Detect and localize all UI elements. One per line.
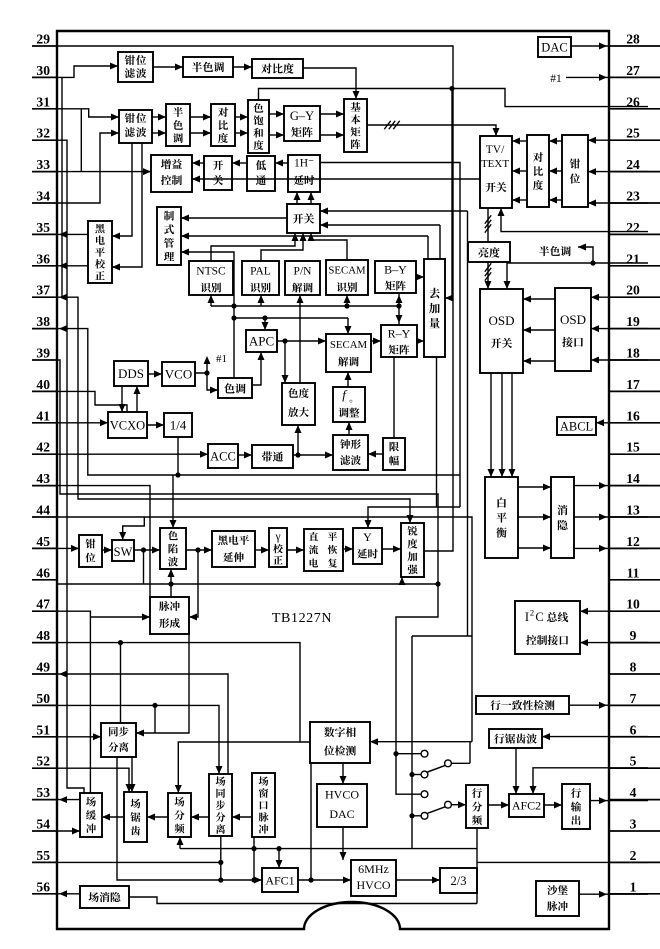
block digital phase detect (数字相位检测) [310,722,370,763]
pin 27 [609,63,660,78]
wire clamp-filter2 to black-level-corr in1 [112,143,132,240]
wire field-sync-sep bottom riser [220,836,222,880]
block field sync separation (场同步分离) [209,774,232,836]
block white balance (白平衡) [485,477,518,558]
svg-text:52: 52 [36,754,50,769]
block gamma correction (γ校正) [269,528,287,567]
wire field-sync-sep to field-divider [191,814,209,821]
switch S2 blade [428,807,446,814]
wire SECAM-detect top to switch2 bottom [308,233,348,260]
block I2C bus control interface [515,601,580,654]
pin 52 [32,754,57,769]
wire pin29 to long vertical [57,46,453,125]
svg-text:11: 11 [627,565,640,580]
svg-text:AFC1: AFC1 [265,874,294,888]
pin 24 [609,157,660,172]
wire 1/4 bottom riser [177,437,179,475]
svg-text:3: 3 [630,817,637,832]
switch S1 blade [428,765,446,772]
block limiter (限幅) [383,438,405,470]
pin 53 [32,785,57,800]
pin 55 [32,848,57,863]
wire pin34 to clamp-filter2 input2 [57,130,119,204]
block line output (行输出) [562,784,590,829]
wire switch2 to standard-manager [181,215,287,222]
svg-text:19: 19 [626,314,640,329]
wire branch to de-emphasis right [445,86,455,302]
wire long vertical x453 to sharpness [424,125,453,551]
svg-text:40: 40 [36,377,50,392]
wire pin19 to OSD interface [591,325,648,332]
svg-text:8: 8 [630,660,637,675]
switch S2 pole to line-divider [445,801,466,808]
block clamp r (钳位) [562,135,588,207]
svg-text:42: 42 [36,440,50,455]
wire pin47 down to field-buffer top [57,611,90,793]
svg-text:VCXO: VCXO [110,419,145,433]
wire contrast1 to basic-matrix top [303,68,360,99]
pin 37 [32,283,57,298]
wire bandpass to bell-filter [293,452,333,459]
svg-text:I: I [525,610,529,624]
svg-text:P/N: P/N [294,266,313,278]
block field buffer (场缓冲) [80,793,102,837]
svg-text:47: 47 [36,597,50,612]
block switch 2 (开关) [287,204,320,233]
wire bus y318 to APC top and SECAM-demod top [234,315,352,334]
svg-text:43: 43 [36,471,50,486]
pin 25 [609,126,660,141]
pin 32 [32,126,57,141]
wire switch1 pole to digital-phase-detect [370,738,472,745]
svg-text:OSD: OSD [560,312,586,327]
pin 9 [609,628,660,643]
pin 11 [609,565,660,580]
pin 15 [609,440,660,455]
wire pin22 to TV/TEXT bottom [498,208,649,232]
wire TV/TEXT to brightness [485,208,491,242]
pin 10 [609,597,660,612]
wire VCO to hue with #1 stub [195,356,218,394]
wire blanking to pin13 [574,514,648,521]
block SECAM demod (SECAM解调) [326,334,371,372]
svg-text:SECAM: SECAM [330,339,368,351]
block field divider (场分频) [168,793,191,837]
wire line-coincidence to pin7 [569,702,648,709]
block VCXO [108,412,147,438]
pin 39 [32,346,57,361]
wire switch to gain-control [192,160,204,167]
wire AFC1 row to 6MHz-HVCO [298,877,351,884]
wire pin31 to clamp-filter2 input1 [57,109,119,121]
wire pin48 branch to field-divider top [175,742,300,793]
wire pin38 bus to color-trap top [57,325,460,478]
svg-text:51: 51 [36,722,50,737]
pin 6 [609,722,660,737]
wire saturation top zigzag to pin26 [259,89,649,107]
block 1/4 divider [164,413,192,437]
block clamp-filter 2 (钳位滤波) [119,110,152,143]
wire pin41 to VCXO [57,419,108,426]
wire clamp-r to contrast-r (3) [549,138,562,204]
wire standard-manager input2 from de-emphasis top [181,233,428,260]
wire clamp-b to SW [102,547,112,554]
wire 1H-delay to lowpass [275,160,288,167]
svg-text:53: 53 [36,785,50,800]
svg-text:50: 50 [36,691,50,706]
block field sawtooth (场锯齿) [124,792,147,842]
wire 6MHz-HVCO to 2/3 [396,877,440,884]
block standard manager (制式管理) [157,207,181,265]
wire R-Y to de-emphasis [416,338,424,345]
svg-text:15: 15 [626,440,640,455]
switch S1 contact a [421,750,428,757]
wire line-divider bottom net [476,828,478,904]
wire pin24 to clamp-r [588,168,648,175]
svg-text:44: 44 [36,503,50,518]
wire switch2 right to de-emphasis top [320,222,440,260]
svg-text:HVCO: HVCO [356,878,390,892]
wire black-level-corr to pin36 [57,262,88,269]
block ABCL [557,417,596,435]
wire chroma-amp to P/N demod [297,295,304,383]
pin 4 [609,785,660,800]
pin 34 [32,189,57,204]
wire branch to AFC1 top [276,849,283,868]
wire field-window bottom riser [251,837,256,880]
pin 50 [32,691,57,706]
block clamp-filter 1 (钳位滤波) [118,52,153,82]
svg-text:2/3: 2/3 [451,874,467,888]
wire DDS to VCO [148,371,162,378]
wire hue riser to standard-manager [181,249,237,379]
svg-text:56: 56 [36,879,50,894]
block color-saturation (色饱和度) [248,100,269,153]
svg-text:1H⁻: 1H⁻ [294,158,314,170]
wire 1H-delay output down long [320,163,460,508]
pin 12 [609,534,660,549]
svg-text:G–Y: G–Y [290,109,314,123]
svg-text:VCO: VCO [165,367,192,382]
wire AFC2 to line-output [544,802,562,809]
svg-text:DAC: DAC [541,41,567,55]
wire clamp-filter2 to black-level-corr in2 [112,143,142,271]
pin 16 [609,408,660,423]
svg-text:4: 4 [630,785,637,800]
wire pin51 to sync-sep [57,733,101,740]
wire SECAM-demod to R-Y matrix [371,338,381,345]
wire pin46 bus [57,581,438,586]
wire G-Y matrix to basic matrix (2) [320,111,344,139]
wire pin25 to clamp-r [588,137,648,144]
pin 42 [32,440,57,455]
pin 54 [32,817,57,832]
wire pin2 line [477,861,648,863]
wire de-emphasis bottom riser [436,357,438,507]
wire B-Y to R-Y link [396,293,403,325]
block basic matrix (基本矩阵) [344,99,367,152]
svg-text:OSD: OSD [488,313,514,328]
svg-text:R–Y: R–Y [388,327,411,341]
pin 31 [32,94,57,109]
pin 5 [609,754,660,769]
block line sawtooth (行锯齿波) [489,729,542,748]
pin 18 [609,346,660,361]
pin 38 [32,314,57,329]
wire Y-delay to sharpness [382,546,401,553]
svg-text:34: 34 [36,189,50,204]
switch S2 contact a [421,791,428,798]
svg-text:AFC2: AFC2 [512,799,541,813]
wire line-sawtooth to AFC2 [513,748,520,794]
svg-text:14: 14 [626,471,640,486]
wire limiter to bell-filter [368,451,383,458]
block f0 adjust (f。调整) [333,387,365,422]
block DDS [114,361,148,386]
block line divider (行分频) [466,785,488,828]
pin 28 [609,32,660,47]
wire hue to APC bottom [252,352,265,385]
svg-text:9: 9 [630,628,637,643]
svg-text:NTSC: NTSC [196,266,226,278]
svg-text:31: 31 [36,94,50,109]
wire #1 to pin27 [550,73,609,85]
wire lowpass to switch [232,160,247,167]
pin 29 [32,32,57,47]
pin 56 [32,879,57,894]
svg-text:6: 6 [630,722,637,737]
block Y delay (Y延时) [353,528,382,564]
block PAL detect (PAL识别) [242,261,279,295]
block hue (色调) [218,378,252,398]
pin 51 [32,722,57,737]
wire field-divider to field-sawtooth [147,814,168,821]
wire NTSC top to switch2 bottom [211,233,299,261]
wire branch pin44 to SW top [119,517,144,540]
label #1 at hue [216,353,227,365]
block blanking (消隐) [551,477,574,558]
switch S1 pole [445,742,470,767]
wire clamp-filter1 to half-tone1 [153,64,183,71]
block half-tone 1 (半色调) [183,57,233,77]
svg-text:27: 27 [626,63,640,78]
wire switch2 right from selector vertical [320,208,468,637]
wire color-trap to pulse-forming riser [168,569,175,597]
svg-text:#1: #1 [216,353,227,365]
switch S2 contact b [412,812,428,819]
block 2/3 divider [440,868,477,893]
svg-text:ABCL: ABCL [560,420,593,434]
pin 19 [609,314,660,329]
svg-text:1/4: 1/4 [170,418,187,433]
svg-text:C: C [535,610,543,624]
block ACC [208,444,238,468]
block APC [246,330,277,352]
wire VCXO to 1/4 [147,422,164,429]
svg-text:36: 36 [36,251,50,266]
svg-text:HVCO: HVCO [325,788,359,802]
block chroma amp (色度放大) [282,383,315,425]
wire pin39 bus down right [57,360,441,794]
pin 7 [609,691,660,706]
wire sync-sep bottom long to AFC1 [117,757,262,884]
block black-level stretch (黑电平延伸) [212,531,255,567]
svg-text:17: 17 [626,377,640,392]
block sharpness enhance (锐度加强) [401,523,424,577]
block contrast v (对比度) [211,104,235,146]
pin 1 [609,879,660,894]
floating label half-tone (半色调) [539,246,571,256]
pin 30 [32,63,57,78]
wire ACC to bandpass [238,452,252,459]
svg-text:APC: APC [249,334,274,349]
wire bell-filter to f0-adjust [346,422,353,435]
svg-text:18: 18 [626,346,640,361]
block SECAM detect (SECAM识别) [326,260,368,295]
wire bottom bus to field-blanking [129,897,477,904]
block lowpass (低通) [247,156,275,191]
wire pulse-forming bottom to sync-sep right [136,634,189,737]
svg-text:39: 39 [36,346,50,361]
wire field-sawtooth to field-buffer [102,814,124,821]
block half-tone v (半色调) [166,104,190,146]
wire blanking to pin12 [574,545,648,552]
pin 17 [609,377,660,392]
svg-text:28: 28 [626,32,640,47]
block SW [112,540,134,561]
svg-text:35: 35 [36,220,50,235]
wire switch1 contact feed [396,753,421,755]
block DC level restore (直流恢复电平) [304,529,343,571]
svg-text:21: 21 [626,251,640,266]
svg-text:SW: SW [114,545,133,559]
svg-text:TB1227N: TB1227N [272,611,332,626]
pin 41 [32,408,57,423]
wire bus y848 field-divider to line-divider net [177,837,478,851]
svg-text:1: 1 [630,879,637,894]
block OSD switch (OSD开关) [480,289,523,373]
block VCO [162,362,195,386]
pin 8 [609,660,660,675]
wire R-Y bottom to limiter top [393,357,395,438]
svg-text:12: 12 [626,534,640,549]
wire NTSC bottom bus [208,295,402,309]
wire digital-phase bottom-left riser [310,763,312,880]
wire black-stretch to gamma [255,547,269,554]
block brightness (亮度) [468,242,510,262]
block B-Y matrix [375,261,416,293]
svg-text:46: 46 [36,565,50,580]
wire SW to color-trap [134,547,160,554]
svg-text:30: 30 [36,63,50,78]
wire selector bus horizontal [412,635,472,637]
svg-text:54: 54 [36,817,50,832]
block AFC2 [509,794,544,817]
wire TV/TEXT to gain-control [192,176,480,183]
wire line-output to pin4 [590,797,648,804]
wire bus to Y-delay top [365,507,461,528]
wire field-buffer to pin53 [57,796,80,803]
svg-text:PAL: PAL [250,266,271,278]
wire pin9 to I2C [580,639,648,646]
pin 40 [32,377,57,392]
wire pin42 to ACC [57,451,208,458]
wire basic-matrix to TV/TEXT switch top [367,121,500,136]
block OSD interface (OSD接口) [555,288,591,371]
block color trap (色陷波) [160,528,186,569]
svg-text:γ: γ [274,531,280,543]
pin 20 [609,283,660,298]
wire link pin31 line to pin33 line [80,109,82,172]
pin 14 [609,471,660,486]
svg-text:TV/: TV/ [486,144,505,156]
wire pin55 to field-sync-sep riser [57,860,223,865]
block R-Y matrix [381,325,417,357]
block pulse forming (脉冲形成) [150,597,189,634]
wire gamma to DC-restore [287,547,304,554]
wire color-trap top riser [170,475,177,528]
svg-text:33: 33 [36,157,50,172]
wire pin33 to gain-control [57,168,151,175]
svg-text:48: 48 [36,628,50,643]
svg-text:49: 49 [36,660,50,675]
block G-Y matrix [284,106,320,141]
wire pin18 to OSD interface [591,357,648,364]
pin 35 [32,220,57,235]
wire branch pin50 down to sync-sep feed line [154,705,156,733]
block de-emphasis (去加量) [424,259,445,357]
pin 3 [609,817,660,832]
block NTSC detect (NTSC识别) [189,261,233,295]
svg-text:2: 2 [630,848,637,863]
wire HVCO-DAC to 6MHz-HVCO [340,827,347,860]
svg-text:7: 7 [630,691,637,706]
svg-text:16: 16 [626,408,640,423]
svg-text:20: 20 [626,283,640,298]
wire black-level-corr to pin35 [57,231,88,238]
wire contrast-r to TV/TEXT (3) [512,138,527,204]
block sandcastle pulse (沙堡脉冲) [536,881,579,916]
svg-text:5: 5 [630,754,637,769]
wire pin30 to clamp-filter1 [57,63,118,78]
pin 26 [609,94,660,109]
wire chroma-amp bottom riser [295,425,302,455]
wire PAL top to switch2 bottom [261,233,307,261]
wire field-blanking to pin56 [57,890,80,897]
pin 23 [609,189,660,204]
svg-text:#1: #1 [550,73,562,85]
wire pin46 arrow to sharpness bottom [399,577,406,585]
block line coincidence detect (行一致性检测) [476,696,569,714]
wire SW branch down [143,550,145,584]
wire pin21 branch to half-tone label [578,244,593,264]
wire pin32 down-left bus to field-buffer top [57,140,84,793]
wire pin10 to I2C [580,608,648,615]
pin 21 [609,251,660,266]
wire brightness to OSD switch [485,262,492,289]
wire APC to SECAM-demod [277,338,326,345]
pin 43 [32,471,57,486]
svg-text:55: 55 [36,848,50,863]
pin 47 [32,597,57,612]
wire VCXO to DDS up [134,386,141,412]
wire pin16 to ABCL [596,419,648,426]
wire DC-restore to Y-delay [343,546,353,553]
wire pin6 to line-sawtooth [542,733,648,740]
block field window pulse (场窗口脉冲) [252,773,275,837]
block DAC [538,37,571,57]
IC body outline TB1227N [57,31,609,929]
